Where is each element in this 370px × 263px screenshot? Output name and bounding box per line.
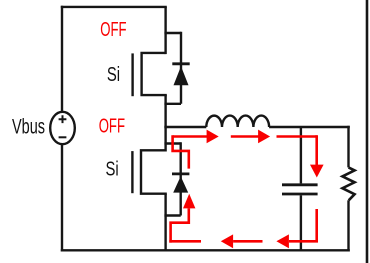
transistor Q1 channel bracket xyxy=(142,53,167,95)
current arrow A4 head (left, bottom) xyxy=(276,234,289,248)
transistor Q1 gate bar xyxy=(131,53,133,96)
current arrow A1 head (right) xyxy=(207,130,219,144)
svg-text:Si: Si xyxy=(106,157,119,180)
frame right edge xyxy=(366,0,369,263)
current arrow A6 head (up through D2) xyxy=(183,194,195,209)
diode D1 (body diode of Q1) xyxy=(172,32,189,104)
wire Q1 source xyxy=(164,95,166,128)
resistor R1 top lead xyxy=(347,126,349,168)
current path bottom right segment xyxy=(289,240,318,243)
diode D2 (body diode of Q2) xyxy=(172,142,189,215)
transistor Q2 channel bracket xyxy=(141,150,167,193)
svg-text:Si: Si xyxy=(107,63,120,86)
svg-text:OFF: OFF xyxy=(99,115,125,138)
capacitor C1 plates xyxy=(282,185,318,194)
current path bottom left segment xyxy=(169,240,201,243)
capacitor C1 bottom lead xyxy=(300,195,302,250)
current path top right segment xyxy=(277,135,317,138)
current arrow A5 head (left, bottom) xyxy=(221,234,233,248)
current arrow A3 shaft (down into C1) xyxy=(315,135,318,165)
wire Q1 drain xyxy=(164,7,166,54)
voltage source Vbus xyxy=(50,112,75,144)
node switch node wire xyxy=(164,126,206,128)
current arrow A1 shaft (switch node to L1) xyxy=(173,135,208,138)
resistor R1 bottom lead xyxy=(347,200,349,251)
wire Q2 drain xyxy=(164,126,166,152)
current path riser to D2 xyxy=(171,208,189,242)
transistor Q2 gate bar xyxy=(131,151,133,193)
wire jog to D2 bottom xyxy=(164,214,180,216)
svg-text:OFF: OFF xyxy=(100,18,126,41)
wire top bus xyxy=(61,6,167,8)
wire left bus upper xyxy=(61,6,63,112)
current arrow A2 shaft (through L1) xyxy=(231,135,259,138)
current path hook above D2 xyxy=(173,135,189,168)
wire jog to D2 top xyxy=(164,142,180,144)
svg-text:Vbus: Vbus xyxy=(12,116,45,139)
wire Q2 source xyxy=(164,194,166,251)
current arrow A3 head (down) xyxy=(310,165,324,178)
wire jog to D1 bottom xyxy=(164,103,181,105)
wire jog to D1 top xyxy=(164,32,181,34)
capacitor C1 top lead xyxy=(300,127,302,183)
resistor R1 zigzag xyxy=(342,167,354,200)
inductor L1 xyxy=(206,116,269,127)
current path below C1 xyxy=(315,209,318,241)
current path bottom middle segment xyxy=(233,240,262,243)
wire bottom bus xyxy=(61,249,350,251)
current arrow A2 head (right) xyxy=(258,130,270,144)
wire left bus lower xyxy=(61,144,63,251)
wire L1 to output node xyxy=(269,126,350,128)
